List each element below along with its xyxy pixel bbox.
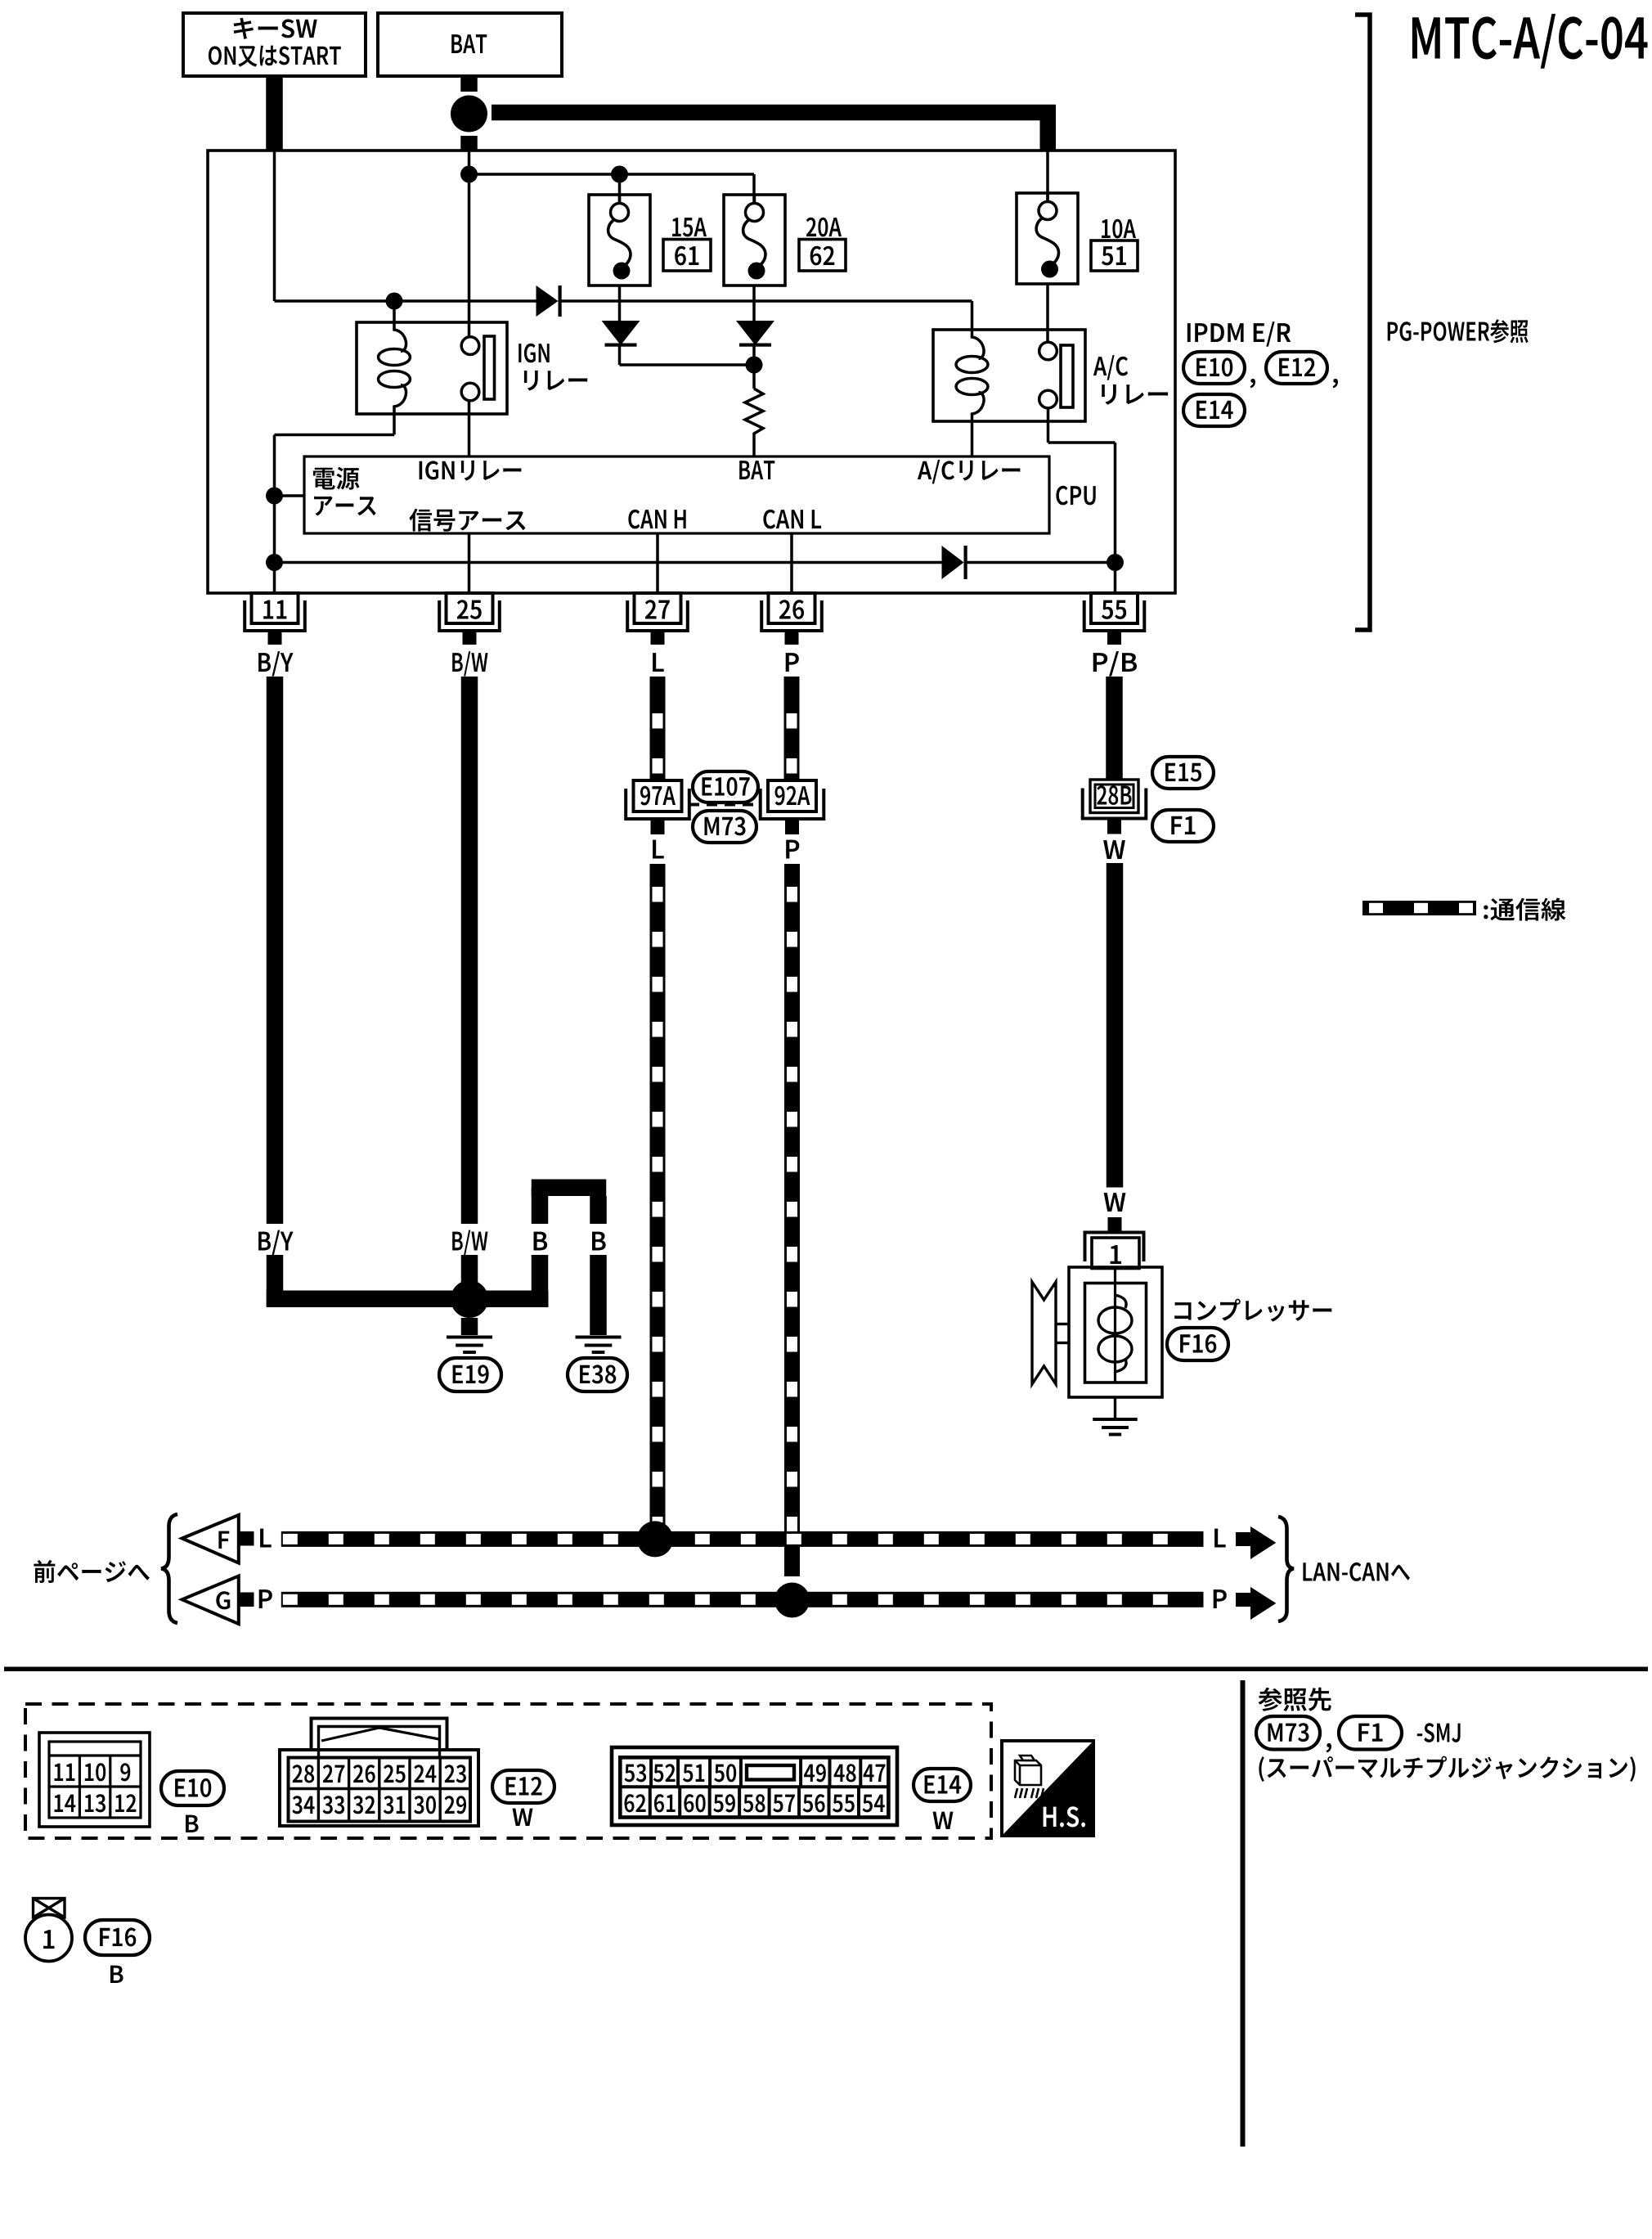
CPU box [304,456,1049,533]
pin 11 [252,593,299,623]
pulley link bars [1056,1323,1069,1325]
label CPU inputs [313,467,360,490]
wire power ground rail [266,488,283,505]
H.S. harness side icon [1002,1741,1093,1836]
wire CAN H comm line lower [650,864,666,1539]
connector F1 ref [1339,1716,1402,1750]
wire BAT feed to IGN relay contact [468,151,471,337]
node BAT sense join [746,357,763,374]
off-page arrow F [182,1515,239,1563]
node 15A fuse tap [611,166,628,183]
brace left [161,1514,177,1623]
wire B/Y pin11 run (thick) [267,677,284,1224]
node CAN-L junction [774,1583,810,1618]
wire ignition bus y368 [275,299,537,303]
connector E12 ref [1266,352,1327,384]
wire color label B/W [452,651,487,677]
wire CAN L to pin 26 [790,533,793,593]
wire splice to B loop (thick) [469,1291,549,1308]
pin 25 [447,593,493,623]
connector 28B [1090,780,1138,813]
node IGN relay coil tap [386,293,403,310]
connector face E12 [280,1750,478,1826]
fuse 15A [589,195,650,285]
connector detail dashed box [25,1704,991,1838]
legend communication line sample [1362,901,1476,915]
label A/C relay [1093,355,1128,380]
wire P/B pin55 run (thick) [1106,677,1123,780]
connector F1 [1152,810,1214,842]
wire B right leg (thick) [590,1196,607,1224]
ground splice node [451,1280,488,1318]
relay IGN - contact circles [461,337,479,355]
title MTC-A/C-04 [1412,14,1648,69]
connector M73 [693,811,756,843]
diode D4 to pin 55 [942,546,964,579]
resistor R1 (BAT sense) [745,389,763,456]
wire B loop top (thick) [532,1180,607,1197]
wire splice to E19 ground (thick) [461,1318,478,1335]
wire color label P/B [1093,651,1137,677]
wire key-SW to IPDM (thick) [266,76,283,151]
label compressor [1174,1299,1331,1322]
off-page arrow G [182,1576,239,1625]
connector face E14 [612,1747,897,1825]
label 10A [1102,219,1136,239]
wire 10A fuse to A/C relay contact [1046,285,1049,342]
wire BAT down to junction (thick) [460,76,478,92]
relay IGN - box [357,322,507,414]
node BAT branch [460,166,478,183]
connector face E10 [39,1733,150,1827]
connector E10 ref [1183,352,1245,384]
wire A/C relay coil to CPU [971,421,974,456]
label CPU [1056,486,1095,506]
wire BAT bus to 10A fuse (thick) [492,105,1056,121]
relay IGN - coil [394,322,406,352]
wire color label B/Y [258,651,294,677]
node pin55 join [1107,554,1124,571]
label W below 28B [1103,840,1125,859]
label L right [1214,1529,1226,1548]
label -SMJ [1417,1723,1461,1742]
wire fuse supply bus [469,173,755,176]
connector label E14 [914,1769,971,1801]
connector E107 [693,771,758,803]
wire color label W [1104,1193,1126,1212]
wire IGN coil to ground rail [393,414,396,435]
node CAN-H junction [637,1521,673,1557]
connector label E12 [492,1770,554,1803]
label P left [259,1589,272,1608]
label previous page [34,1560,150,1583]
relay A/C - coil [972,330,985,359]
label super multiple junction [1259,1756,1635,1782]
IPDM E/R enclosure box [208,151,1175,593]
connector E14 ref [1183,394,1245,426]
connector M73 ref [1256,1716,1320,1750]
power source box key-SW ON/START [183,13,366,76]
H.S. connector glyph [1015,1760,1041,1785]
label 20A [806,218,842,237]
diode D2 under 15A fuse [618,285,622,321]
compressor coil L1 [1116,1295,1127,1308]
wire IGN contact to CPU [468,401,471,456]
wire B/W pin25 run (thick) [461,677,478,1224]
label P below 92A [786,840,799,859]
connector F16 ref [85,1920,150,1955]
junction node BAT splice [451,96,487,133]
terminal 1 symbol [34,1899,65,1918]
connector E19 [439,1358,501,1392]
arrow LAN-CAN L [1236,1532,1250,1546]
compressor body box [1069,1267,1162,1397]
compressor ground wire [1114,1397,1116,1418]
wire signal ground to pin 25 [468,533,471,593]
wire A/C contact to pin 55 [1047,408,1050,443]
relay A/C - contact circles [1039,342,1057,360]
ground symbol compressor [1093,1418,1138,1421]
wire color label L [653,653,664,672]
wire 10A fuse feed [1046,151,1049,201]
connector E15 [1152,757,1214,789]
PG-POWER bracket [1355,15,1370,630]
relay IGN - armature bar [484,336,495,399]
fuse number box 51 [1091,241,1138,271]
compressor coil wire [1114,1269,1116,1383]
label L below 97A [653,840,664,859]
compressor pulley [1032,1282,1056,1384]
connector 92A [768,780,816,812]
wire key-SW feed inside IPDM [273,151,276,301]
connector E38 [568,1358,627,1392]
label 参照先 [1258,1688,1331,1711]
connector F16 [1167,1328,1228,1360]
pin 27 [635,593,681,623]
fuse 20A [724,195,785,285]
wire CAN H to pin 27 [656,533,659,593]
CAN P-line horizontal comm [281,1592,1204,1607]
pin 55 [1091,593,1138,623]
ground symbol E38 [576,1336,622,1339]
fuse number box 61 [663,240,711,272]
connector 1 (compressor) [1085,1233,1144,1262]
wire BAT splice to IPDM top (thick) [460,136,478,151]
fuse 10A [1017,193,1078,284]
connector label E10 [161,1771,224,1805]
wire diode outputs join [620,363,755,366]
wire CAN L comm line upper [784,677,800,780]
label L left [260,1529,272,1548]
legend label 通信線 [1484,898,1565,921]
wire CAN L comm line lower [784,864,800,1576]
label P right [1214,1589,1227,1608]
diode D1 (bus) [536,285,559,317]
divider line [4,1667,1648,1672]
fuse number box 62 [799,240,846,272]
label PG-POWER参照 [1388,319,1529,343]
label IGN relay [518,344,550,363]
label 15A [672,218,707,236]
arrow LAN-CAN P [1236,1593,1250,1607]
wire W run to compressor (thick) [1107,863,1124,1188]
relay A/C - armature bar [1061,345,1073,407]
wire ground-diode line y687 [266,554,283,571]
CAN L-line horizontal comm [281,1531,1204,1547]
reference panel separator [1241,1680,1246,2147]
relay A/C - box [933,330,1085,421]
brace right [1278,1517,1294,1621]
label IPDM E/R [1187,321,1291,347]
diode D3 under 20A fuse [752,285,756,321]
wire B/Y to splice (thick) [267,1291,469,1308]
ground symbol E19 [447,1336,492,1339]
label LAN-CAN [1303,1562,1410,1581]
wire color label P [786,653,799,672]
SMJ dashed link [689,803,761,807]
power source box BAT [378,13,562,76]
pin 26 [769,593,815,623]
wire CAN H comm line upper [650,677,666,780]
connector 97A [634,780,682,812]
